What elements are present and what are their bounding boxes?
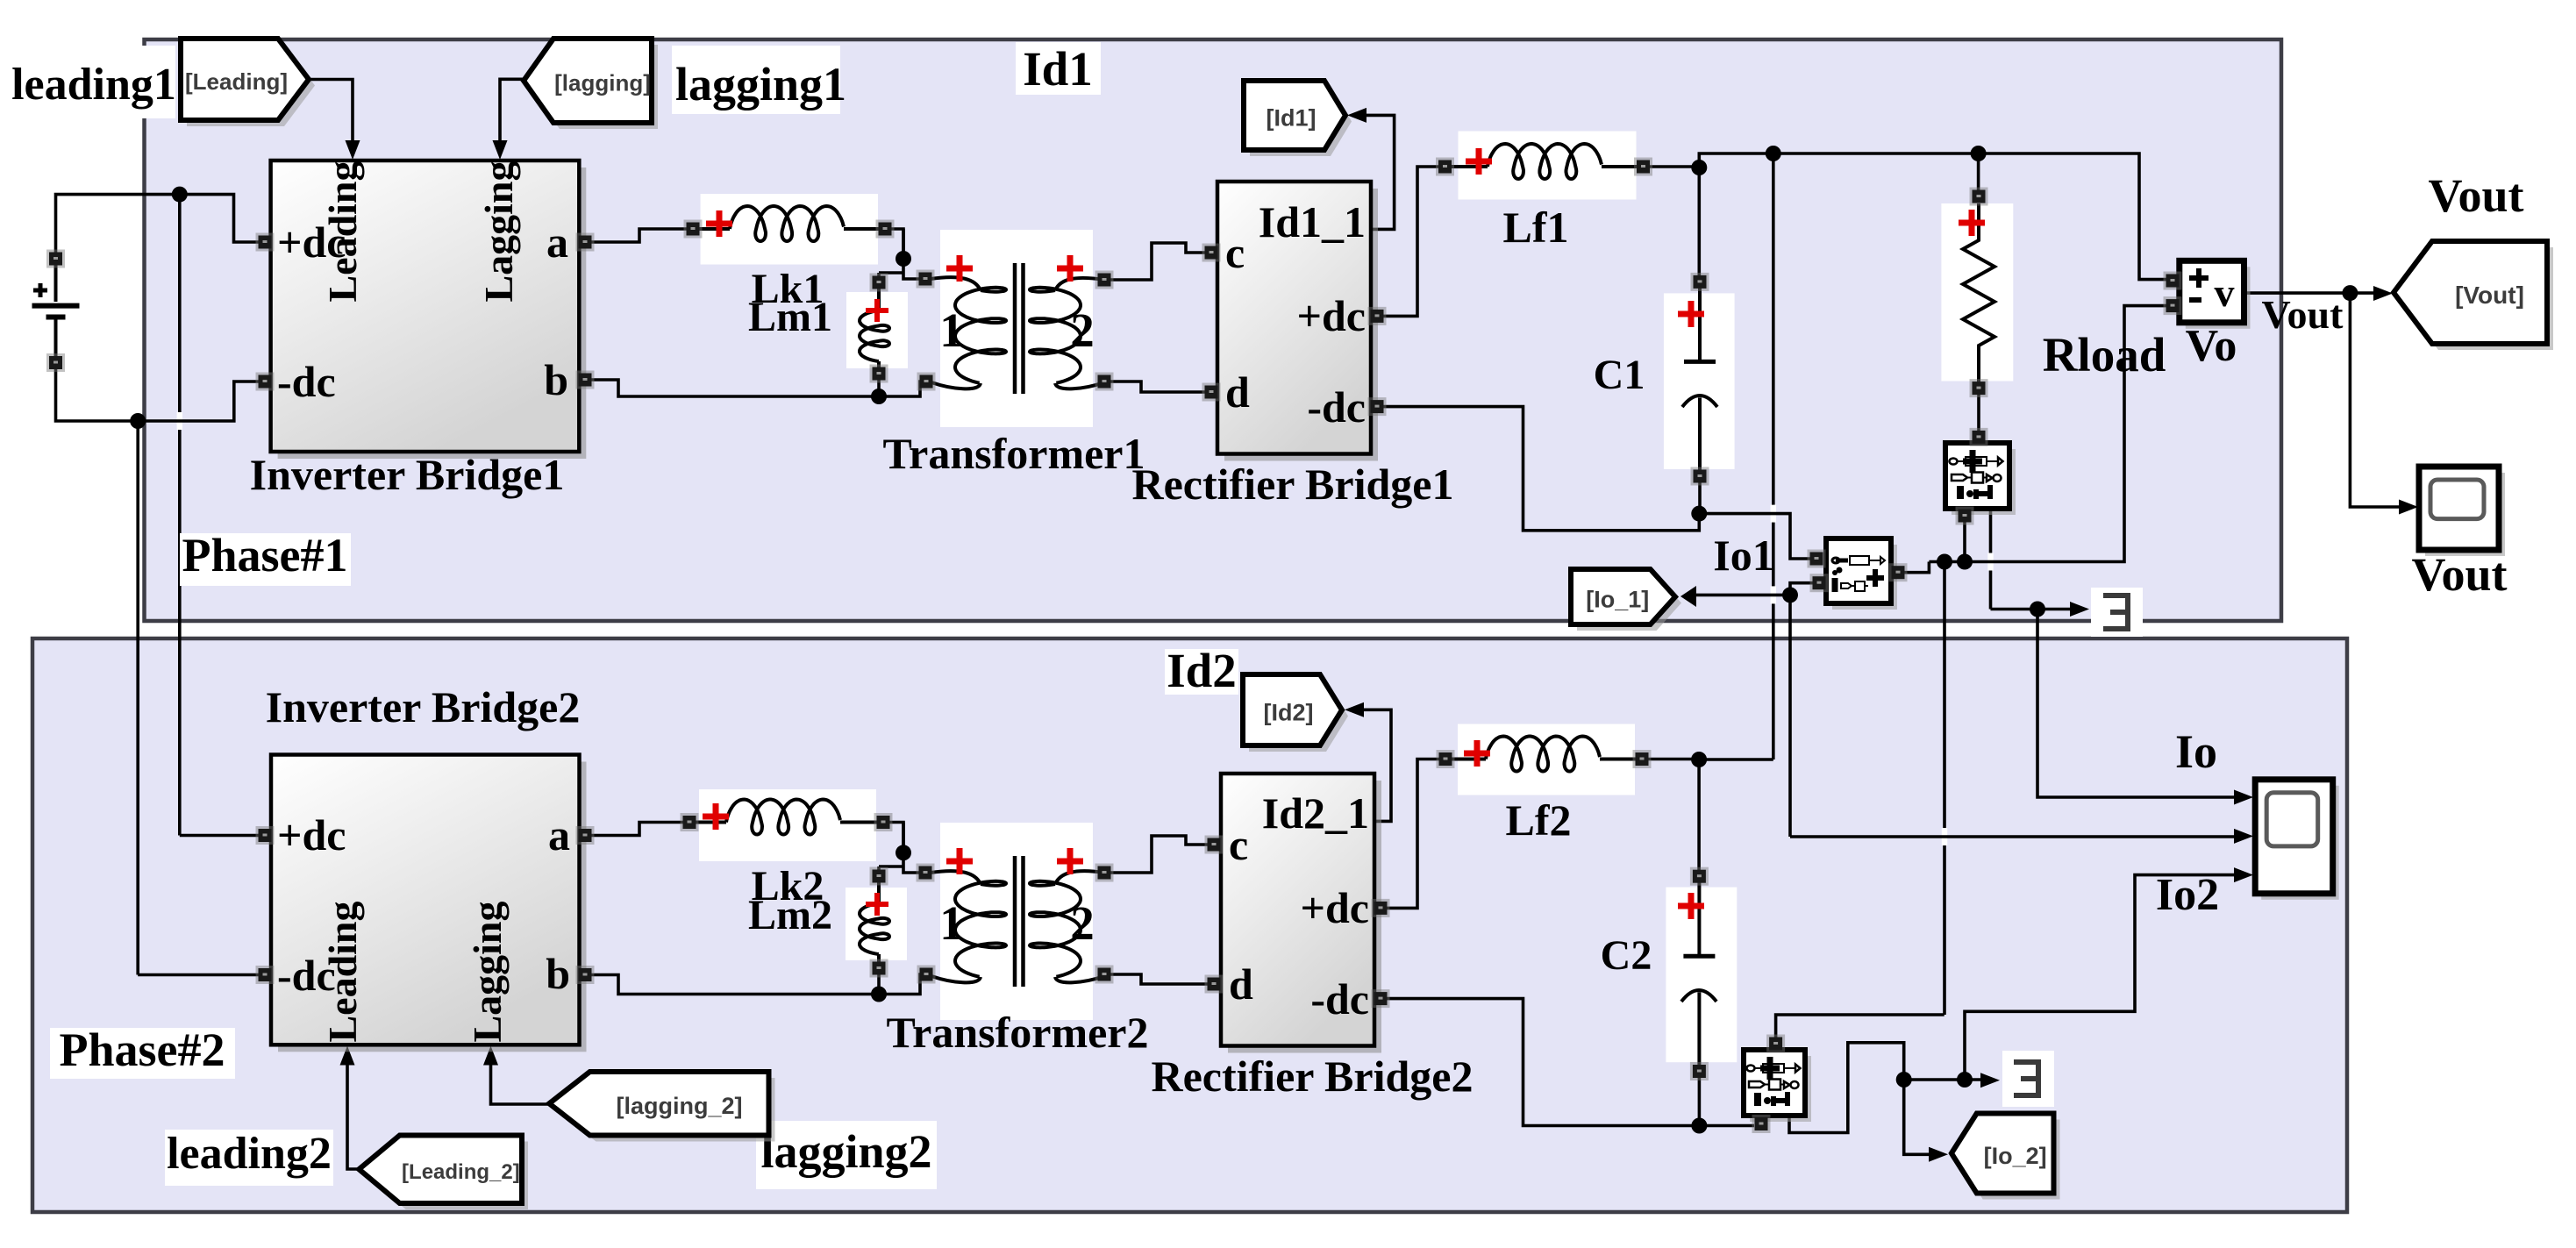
svg-text:+dc: +dc bbox=[277, 810, 346, 859]
svg-text:b: b bbox=[546, 949, 570, 998]
svg-text:Id2_1: Id2_1 bbox=[1262, 788, 1369, 838]
svg-text:[Id1]: [Id1] bbox=[1267, 104, 1317, 131]
svg-text:Inverter Bridge1: Inverter Bridge1 bbox=[250, 450, 565, 499]
svg-text:-dc: -dc bbox=[1307, 382, 1366, 431]
svg-text:c: c bbox=[1225, 228, 1245, 277]
svg-text:-dc: -dc bbox=[1310, 974, 1369, 1023]
svg-text:a: a bbox=[548, 810, 570, 859]
svg-text:Lagging: Lagging bbox=[476, 160, 521, 302]
svg-text:Id2: Id2 bbox=[1167, 644, 1237, 697]
svg-text:d: d bbox=[1225, 367, 1250, 417]
svg-text:1: 1 bbox=[939, 896, 964, 950]
svg-text:Lf2: Lf2 bbox=[1506, 795, 1572, 845]
svg-text:Rectifier Bridge1: Rectifier Bridge1 bbox=[1132, 460, 1454, 509]
svg-text:Vout: Vout bbox=[2428, 169, 2523, 222]
svg-text:Phase#1: Phase#1 bbox=[182, 529, 348, 581]
svg-text:[lagging]: [lagging] bbox=[554, 69, 651, 96]
svg-text:[Leading]: [Leading] bbox=[185, 68, 288, 95]
svg-text:[lagging_2]: [lagging_2] bbox=[616, 1093, 742, 1119]
svg-text:Vo: Vo bbox=[2186, 321, 2237, 371]
svg-text:C2: C2 bbox=[1601, 932, 1652, 979]
svg-text:2: 2 bbox=[1070, 896, 1095, 950]
svg-text:a: a bbox=[546, 218, 568, 267]
svg-text:leading1: leading1 bbox=[11, 60, 176, 110]
svg-text:Id1: Id1 bbox=[1023, 42, 1093, 96]
svg-text:leading2: leading2 bbox=[167, 1129, 332, 1179]
svg-text:Io: Io bbox=[2175, 725, 2217, 778]
svg-text:Io1: Io1 bbox=[1713, 531, 1773, 580]
svg-text:C1: C1 bbox=[1594, 352, 1645, 398]
svg-text:Vout: Vout bbox=[2262, 292, 2344, 337]
svg-text:+dc: +dc bbox=[1301, 883, 1370, 932]
svg-text:[Leading_2]: [Leading_2] bbox=[402, 1160, 520, 1184]
svg-text:Lf1: Lf1 bbox=[1503, 203, 1569, 252]
svg-text:[Id2]: [Id2] bbox=[1264, 699, 1314, 725]
svg-text:Id1_1: Id1_1 bbox=[1259, 197, 1366, 246]
svg-text:-dc: -dc bbox=[277, 357, 336, 406]
svg-text:[Vout]: [Vout] bbox=[2455, 282, 2524, 309]
svg-text:[Io_2]: [Io_2] bbox=[1984, 1143, 2047, 1169]
svg-text:Inverter Bridge2: Inverter Bridge2 bbox=[266, 682, 581, 731]
svg-text:Phase#2: Phase#2 bbox=[60, 1023, 225, 1076]
svg-text:c: c bbox=[1229, 820, 1248, 869]
svg-text:Transformer2: Transformer2 bbox=[887, 1008, 1149, 1057]
svg-text:Leading: Leading bbox=[320, 901, 365, 1042]
svg-text:lagging1: lagging1 bbox=[675, 58, 846, 111]
svg-text:Transformer1: Transformer1 bbox=[883, 429, 1145, 478]
svg-text:v: v bbox=[2215, 270, 2235, 315]
svg-text:Rectifier Bridge2: Rectifier Bridge2 bbox=[1152, 1052, 1474, 1101]
svg-text:Lagging: Lagging bbox=[465, 901, 510, 1042]
svg-text:[Io_1]: [Io_1] bbox=[1586, 586, 1649, 612]
svg-text:lagging2: lagging2 bbox=[760, 1125, 931, 1178]
svg-text:1: 1 bbox=[939, 303, 964, 357]
svg-text:Lm2: Lm2 bbox=[748, 892, 832, 938]
svg-text:d: d bbox=[1229, 959, 1253, 1009]
svg-text:2: 2 bbox=[1070, 303, 1095, 357]
svg-text:Lm1: Lm1 bbox=[748, 294, 832, 340]
svg-text:Rload: Rload bbox=[2043, 328, 2166, 382]
svg-text:b: b bbox=[544, 355, 568, 404]
svg-text:Io2: Io2 bbox=[2156, 870, 2219, 920]
svg-text:Vout: Vout bbox=[2411, 548, 2507, 601]
svg-text:+dc: +dc bbox=[1297, 291, 1366, 340]
svg-text:Leading: Leading bbox=[320, 160, 365, 302]
